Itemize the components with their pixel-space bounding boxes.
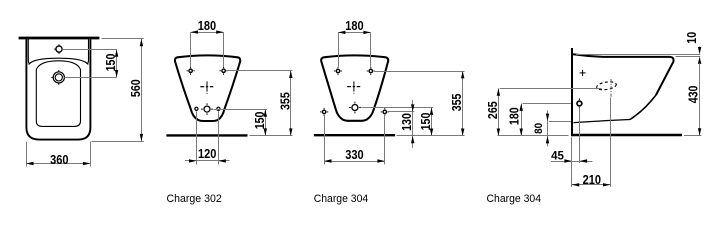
svg-text:360: 360 <box>50 152 68 167</box>
view2 dim 180 <box>190 32 192 66</box>
svg-text:180: 180 <box>507 107 522 125</box>
view4 dim 10 <box>576 54 700 56</box>
view4 drain dashed ellipse <box>596 81 617 91</box>
view4 bottom line <box>571 134 682 136</box>
view3 fixing hole right <box>369 69 372 72</box>
view4 body belly curve <box>630 95 656 120</box>
view2 supply hole right <box>217 107 220 110</box>
view3 body outline <box>321 55 388 120</box>
svg-text:210: 210 <box>583 172 601 187</box>
view4 faucet cross <box>580 72 586 74</box>
svg-text:560: 560 <box>128 79 143 97</box>
svg-text:355: 355 <box>449 94 464 112</box>
view1 inner rim right line <box>86 39 88 63</box>
view1 dim 150 <box>62 49 116 51</box>
view3 dim 150 <box>361 107 433 109</box>
view2 dim 355 <box>227 70 293 72</box>
view2 dim 120 <box>196 111 198 164</box>
view4 dim 430 <box>699 63 701 135</box>
view2 fixing hole left <box>189 69 192 72</box>
view4 wall line <box>571 48 573 136</box>
view1 basin outline <box>36 61 80 127</box>
view4 left bottom ext <box>497 135 568 137</box>
view4 supply hole <box>577 101 582 106</box>
svg-text:355: 355 <box>277 92 292 110</box>
svg-text:265: 265 <box>485 101 500 119</box>
view1 faucet hole <box>56 46 62 52</box>
view2 supply hole left <box>195 107 198 110</box>
svg-text:120: 120 <box>198 146 216 161</box>
svg-text:330: 330 <box>345 147 363 162</box>
svg-text:150: 150 <box>418 113 433 131</box>
view3 dim 355 <box>375 71 465 73</box>
view3 floor line <box>314 134 395 136</box>
view4 dim 265 <box>500 88 602 90</box>
svg-text:Charge 302: Charge 302 <box>167 193 222 205</box>
view1 dim 360 <box>26 142 28 167</box>
svg-text:150: 150 <box>252 112 267 130</box>
svg-text:80: 80 <box>533 123 545 134</box>
svg-text:430: 430 <box>686 86 701 104</box>
view2 floor line <box>166 134 247 136</box>
view3 fixing hole left <box>336 69 339 72</box>
svg-text:45: 45 <box>551 148 564 162</box>
view1 body outer outline <box>26 39 90 139</box>
view1 wall line <box>19 37 100 40</box>
view1 rim arch outer <box>29 58 89 64</box>
view4 body underside line <box>574 120 631 123</box>
view2 dim 150 <box>214 109 267 111</box>
view3 faucet centre cross <box>353 81 355 91</box>
view3 side hole left <box>322 110 325 113</box>
view3 dim 130 <box>388 111 415 113</box>
view4 dim 80 <box>549 121 571 123</box>
view2 body outline <box>175 55 240 121</box>
view1 dim 560 <box>102 38 144 40</box>
view1 drain <box>53 72 64 83</box>
view4 dim 180 <box>523 103 571 105</box>
view2 fixing hole right <box>222 69 225 72</box>
view3 supply centre <box>352 105 358 111</box>
view4 body top edge and front diagonal <box>573 54 674 95</box>
view4 dim 210 <box>610 98 612 187</box>
view2 supply centre <box>204 106 210 112</box>
svg-text:Charge 304: Charge 304 <box>314 193 369 205</box>
svg-text:180: 180 <box>198 18 216 33</box>
view3 side hole right <box>383 110 386 113</box>
view4 dim 45 <box>571 138 573 187</box>
view3 dim 330 <box>324 115 326 165</box>
svg-text:130: 130 <box>399 113 414 131</box>
svg-text:180: 180 <box>345 18 363 33</box>
view2 faucet centre cross <box>206 81 208 91</box>
view3 dim 180 <box>338 32 340 66</box>
svg-text:10: 10 <box>684 32 699 44</box>
svg-text:150: 150 <box>103 54 118 72</box>
svg-text:Charge 304: Charge 304 <box>487 193 542 205</box>
view1 inner rim left line <box>28 39 30 63</box>
